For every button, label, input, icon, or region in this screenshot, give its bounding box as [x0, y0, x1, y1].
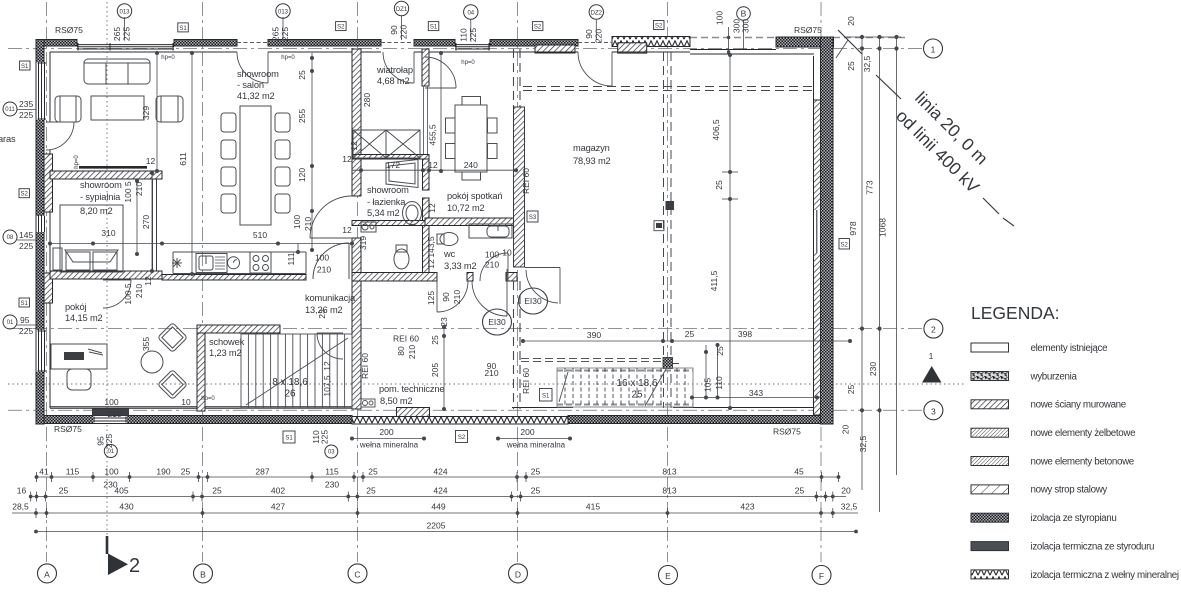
door arc salon/komunikacja [313, 243, 349, 279]
kitchen star symbol [172, 258, 182, 268]
kitchen counter [173, 251, 306, 253]
svg-text:115: 115 [325, 467, 339, 477]
svg-text:329: 329 [141, 106, 151, 120]
svg-text:25: 25 [531, 467, 541, 477]
svg-text:pom. techniczne: pom. techniczne [379, 384, 444, 394]
svg-text:12: 12 [349, 141, 359, 151]
svg-text:013: 013 [119, 10, 130, 16]
svg-text:319: 319 [358, 236, 368, 250]
svg-text:S2: S2 [841, 242, 849, 248]
meeting table spotkan [455, 105, 487, 172]
legend swatch wyburzenia [971, 372, 1009, 381]
svg-text:210: 210 [107, 409, 121, 419]
legend swatch nowe elementy betonowe [971, 457, 1009, 466]
svg-text:90: 90 [389, 25, 399, 35]
svg-text:26: 26 [284, 389, 296, 400]
door arc magazyn top DZ2 [578, 52, 612, 86]
svg-text:41,32 m2: 41,32 m2 [237, 91, 275, 101]
svg-text:100 5: 100 5 [123, 181, 133, 203]
svg-text:S1: S1 [21, 64, 29, 70]
window marker 013 b [276, 4, 290, 18]
svg-text:4,68 m2: 4,68 m2 [377, 76, 410, 86]
right dim rotated texts [841, 16, 888, 452]
svg-text:25: 25 [685, 329, 695, 339]
svg-text:izolacja termiczna z wełny min: izolacja termiczna z wełny mineralnej [1031, 570, 1179, 581]
svg-text:04: 04 [467, 11, 474, 17]
interior wall stair left [197, 333, 205, 411]
wall D dashed double [514, 49, 521, 409]
svg-text:S1: S1 [179, 26, 187, 32]
legend swatch nowe elementy zelbetowe [971, 428, 1009, 437]
svg-text:235: 235 [19, 99, 33, 109]
kitchen stove [250, 252, 271, 273]
svg-text:105: 105 [703, 378, 713, 392]
svg-text:wc: wc [443, 249, 456, 259]
wall D hatched segment [514, 107, 525, 267]
dining chairs left [221, 113, 236, 132]
svg-text:41: 41 [39, 467, 49, 477]
svg-text:S2: S2 [458, 435, 466, 441]
svg-text:C: C [354, 569, 360, 579]
svg-text:300: 300 [741, 19, 751, 33]
svg-text:16: 16 [17, 486, 27, 496]
svg-text:111: 111 [286, 252, 296, 265]
axis circle 2 [924, 319, 943, 338]
shower tray lazienka [386, 160, 418, 188]
svg-text:230: 230 [868, 362, 878, 376]
dim line pom tech 25/205 [443, 327, 445, 409]
door arc H3 left [437, 281, 468, 312]
sypialnia right thin wall [153, 179, 157, 271]
beam line over sypialnia [79, 166, 147, 169]
right dim column lines [836, 35, 901, 512]
svg-text:240: 240 [464, 160, 478, 170]
svg-text:813: 813 [662, 486, 676, 496]
grid axis F vertical [820, 2, 822, 562]
svg-text:magazyn: magazyn [573, 143, 610, 153]
sink spotkan [469, 224, 512, 238]
svg-text:12: 12 [143, 276, 153, 286]
svg-text:20: 20 [841, 425, 851, 435]
window marker 04 [464, 5, 478, 19]
svg-text:showroom: showroom [367, 185, 409, 195]
svg-text:12: 12 [342, 225, 352, 235]
svg-text:EI30: EI30 [488, 317, 506, 327]
svg-text:143,5: 143,5 [426, 236, 436, 258]
top wall existing segment lines [690, 49, 776, 51]
svg-text:8 x 18,6: 8 x 18,6 [272, 377, 308, 388]
interior wall lazienka right V3 [423, 158, 430, 190]
stairs 2 magazyn [557, 368, 693, 407]
svg-text:310: 310 [101, 228, 115, 238]
top door gap dashed lintels [237, 42, 612, 44]
svg-text:12: 12 [322, 361, 332, 371]
svg-text:270: 270 [141, 215, 151, 229]
interior wall spotkan bottom H2 [352, 221, 429, 226]
S boxes left [19, 61, 30, 307]
svg-text:230: 230 [325, 480, 339, 490]
svg-text:32,5: 32,5 [862, 55, 872, 72]
svg-text:S3: S3 [529, 215, 537, 221]
svg-text:220: 220 [594, 29, 604, 43]
axis bubble D [509, 564, 528, 583]
svg-text:1,23 m2: 1,23 m2 [209, 348, 242, 358]
dim line magazyn 406,5/25/411,5 vertical [729, 55, 731, 408]
svg-text:hp=0: hp=0 [161, 55, 175, 61]
interior wall sypialnia top [50, 171, 162, 179]
left marker 011 [3, 102, 17, 116]
grid axis C vertical [357, 2, 359, 562]
svg-text:nowe elementy betonowe: nowe elementy betonowe [1031, 456, 1135, 467]
grid axis E vertical [667, 2, 669, 562]
svg-text:25: 25 [212, 486, 222, 496]
door arc H3 right [472, 281, 507, 316]
svg-text:265: 265 [112, 27, 122, 41]
axis marker B top [737, 7, 751, 21]
svg-text:813: 813 [662, 467, 676, 477]
EI30 oval 1 [483, 288, 548, 335]
svg-text:25: 25 [795, 486, 805, 496]
diamond armchair 2 [158, 370, 188, 400]
section marker 1 triangle [922, 366, 942, 383]
svg-text:423: 423 [740, 502, 754, 512]
door arc EI30 magazyn [525, 267, 560, 269]
door arc salon top [46, 52, 612, 359]
left wall checker [36, 40, 44, 425]
svg-text:20: 20 [846, 16, 856, 26]
left wall pilaster hatch [44, 154, 53, 212]
interior wall schowek top [197, 325, 280, 333]
svg-text:1068: 1068 [878, 218, 888, 237]
svg-text:S1: S1 [21, 301, 29, 307]
svg-text:200: 200 [379, 427, 393, 437]
svg-text:25: 25 [846, 385, 856, 395]
svg-text:25: 25 [715, 346, 725, 356]
grid axis D vertical [517, 2, 519, 562]
S boxes top [178, 21, 664, 32]
axis bubble A [38, 564, 57, 583]
svg-text:424: 424 [433, 467, 447, 477]
legend swatch izolacja termiczna ze styroduru [971, 542, 1009, 551]
top wall welna segment [612, 37, 690, 47]
svg-text:12: 12 [427, 203, 437, 213]
svg-text:12: 12 [342, 154, 352, 164]
svg-text:424: 424 [433, 486, 447, 496]
interior dim lines [48, 51, 851, 440]
svg-text:280: 280 [362, 93, 372, 107]
coffee table [91, 96, 144, 120]
svg-text:100 5: 100 5 [123, 283, 133, 305]
svg-text:265: 265 [271, 27, 281, 41]
svg-text:205: 205 [430, 363, 440, 377]
svg-text:100: 100 [715, 11, 725, 25]
S boxes bottom and magazyn [283, 211, 850, 443]
svg-text:220: 220 [399, 25, 409, 39]
axis bubble C [348, 564, 367, 583]
svg-text:78,93 m2: 78,93 m2 [573, 156, 611, 166]
svg-text:F: F [819, 571, 824, 581]
dashed mezzanine edge magazyn [521, 358, 663, 360]
svg-text:355: 355 [141, 337, 151, 351]
top window 2 [455, 43, 490, 51]
svg-text:REI 60: REI 60 [521, 368, 531, 394]
svg-text:B: B [741, 9, 747, 19]
dim line 611 [191, 53, 193, 274]
svg-text:- łazienka: - łazienka [367, 197, 406, 207]
svg-text:406,5: 406,5 [711, 119, 721, 141]
kitchen vent [215, 257, 225, 269]
bottom window pokoj [93, 416, 127, 423]
svg-text:RSØ75: RSØ75 [55, 25, 83, 35]
svg-text:390: 390 [587, 330, 601, 340]
svg-text:430: 430 [119, 502, 133, 512]
small wall marker magazyn [654, 221, 664, 231]
svg-text:80: 80 [396, 346, 406, 356]
svg-text:978: 978 [848, 221, 858, 235]
svg-text:hp=0: hp=0 [74, 155, 80, 169]
svg-text:225: 225 [122, 27, 132, 41]
dim line magazyn 390/25/398 [523, 340, 850, 342]
door arc wiatrolap top DZ1 [383, 52, 414, 83]
svg-text:20: 20 [841, 486, 851, 496]
svg-text:411,5: 411,5 [709, 270, 719, 291]
axis bubble F [812, 566, 831, 585]
armchair left [55, 96, 81, 122]
svg-text:210: 210 [484, 368, 498, 378]
svg-text:013: 013 [278, 10, 289, 16]
window marker 013 a [117, 4, 131, 18]
grid axis 1 horizontal [8, 48, 923, 50]
top wall lintel hatch [618, 43, 647, 53]
svg-text:25: 25 [846, 61, 856, 71]
legend swatch nowe sciany murowane [971, 400, 1009, 409]
dim line 455,5 [440, 53, 442, 171]
lintel over pokoj window [92, 409, 129, 416]
bottom wall welna band [352, 417, 568, 425]
dim line sofa 329 [156, 53, 158, 171]
axis circle 1 [924, 39, 943, 58]
svg-text:wyburzenia: wyburzenia [1030, 371, 1078, 382]
svg-text:210: 210 [134, 182, 144, 196]
dim line welna 2 [498, 438, 570, 440]
svg-text:hp=0: hp=0 [281, 55, 295, 61]
interior wall sypialnia bottom [50, 271, 162, 279]
svg-text:107,5: 107,5 [322, 375, 332, 397]
svg-text:elementy istniejące: elementy istniejące [1031, 343, 1109, 354]
svg-text:14,15 m2: 14,15 m2 [65, 313, 103, 323]
left marker 08 [3, 230, 17, 244]
svg-text:DZ2: DZ2 [591, 11, 603, 17]
dim line magazyn 105/110 [705, 345, 707, 398]
beam over magazyn horizontal dashed [523, 87, 813, 91]
svg-text:225: 225 [468, 28, 478, 42]
WALLS [36, 37, 834, 425]
interior wall wiatrolap right V2 [422, 49, 429, 86]
svg-text:225: 225 [280, 27, 290, 41]
svg-text:12: 12 [426, 259, 436, 269]
top wall inner edge line [50, 51, 237, 53]
svg-text:REI 60: REI 60 [360, 353, 370, 379]
section line 1-1 horizontal dotted [8, 383, 964, 385]
roof overhang dashed top right [690, 37, 905, 39]
svg-text:110: 110 [714, 376, 724, 390]
door arc taras left [46, 122, 74, 150]
svg-text:28,5: 28,5 [12, 502, 29, 512]
svg-text:nowe ściany murowane: nowe ściany murowane [1031, 400, 1127, 411]
tiny hp labels [74, 55, 475, 402]
svg-text:455,5: 455,5 [428, 124, 438, 146]
svg-text:427: 427 [271, 502, 285, 512]
svg-text:showroom: showroom [237, 69, 279, 79]
grid axis 2 horizontal [8, 328, 923, 330]
svg-text:pokój spotkań: pokój spotkań [447, 191, 502, 201]
svg-text:100: 100 [104, 397, 118, 407]
sofa salon [84, 59, 150, 84]
svg-text:izolacja termiczna ze styrodur: izolacja termiczna ze styroduru [1031, 541, 1155, 552]
svg-text:01: 01 [107, 449, 114, 455]
svg-text:100: 100 [315, 253, 329, 263]
svg-text:3: 3 [931, 406, 936, 416]
svg-text:011: 011 [5, 107, 15, 113]
grid axis A vertical [46, 2, 48, 562]
legend labels [1030, 343, 1179, 581]
section line 2-2 vertical dotted [106, 2, 108, 536]
bottom dim chain row 2 [29, 492, 846, 502]
dim line salon right vertical [311, 53, 313, 250]
svg-text:showroom: showroom [80, 180, 122, 190]
stairs 1 schowek [241, 334, 352, 408]
svg-text:45: 45 [794, 467, 804, 477]
svg-text:611: 611 [178, 152, 188, 166]
top marker leader lines [125, 16, 744, 52]
svg-text:DZ1: DZ1 [396, 7, 408, 13]
svg-text:32,5: 32,5 [841, 502, 858, 512]
svg-text:120: 120 [297, 168, 307, 182]
door arc pokoj [103, 280, 131, 308]
svg-text:REI 60: REI 60 [521, 168, 531, 194]
pom techniczne symbol [361, 399, 375, 407]
svg-text:10: 10 [181, 397, 191, 407]
svg-text:25: 25 [531, 486, 541, 496]
door marker DZ2 [589, 5, 603, 19]
bottom dim chain row 4 [35, 530, 858, 533]
bottom dim chain row 3 [12, 508, 858, 518]
svg-text:210: 210 [303, 217, 313, 231]
svg-text:RSØ75: RSØ75 [773, 427, 801, 437]
svg-text:03: 03 [328, 450, 335, 456]
interior wall salon/komunikacja [162, 275, 306, 281]
svg-text:izolacja ze styropianu: izolacja ze styropianu [1031, 513, 1117, 524]
svg-text:wiatrołap: wiatrołap [376, 65, 413, 75]
svg-text:145: 145 [19, 230, 33, 240]
svg-text:aras: aras [0, 134, 16, 144]
svg-text:210: 210 [485, 260, 499, 270]
svg-text:10: 10 [502, 248, 512, 258]
legend swatch nowy strop stalowy [971, 485, 1009, 494]
interior wall lazienka top H1 [352, 155, 429, 160]
svg-text:190: 190 [156, 467, 170, 477]
bottom wall inner floor lines [50, 406, 352, 408]
svg-text:110: 110 [459, 28, 469, 42]
sink lazienka [403, 202, 422, 225]
svg-text:773: 773 [865, 180, 875, 194]
door arc stair hall [317, 333, 343, 359]
svg-text:2: 2 [129, 555, 140, 577]
right wall inner hatch [814, 100, 821, 415]
svg-text:RSØ75: RSØ75 [54, 424, 82, 434]
bottom dim chain row 1 [35, 472, 840, 482]
horizontal dim texts [101, 154, 763, 450]
svg-text:8,20 m2: 8,20 m2 [80, 206, 113, 216]
chair pokoj [67, 369, 91, 390]
toilet wc2 [396, 245, 407, 252]
right wall window strip [814, 210, 820, 253]
dining chairs right [275, 113, 290, 132]
dim line sypialnia 210 [136, 181, 138, 254]
svg-text:- sypialnia: - sypialnia [80, 192, 121, 202]
svg-text:100: 100 [485, 250, 499, 260]
legend swatch izolacja termiczna z welny mineralnej [971, 570, 1009, 579]
svg-text:REI 60: REI 60 [393, 334, 419, 344]
rotated dim texts [123, 70, 725, 397]
dim line 111 kitchen [297, 244, 299, 253]
svg-text:hp=0: hp=0 [201, 396, 215, 402]
svg-text:200: 200 [520, 427, 534, 437]
svg-text:hp=0: hp=0 [461, 60, 475, 66]
dim line welna 1 [352, 438, 424, 440]
round table komunikacja [141, 351, 163, 373]
washer lazienka [361, 222, 376, 232]
interior wall middle bottom H3 [352, 273, 437, 282]
beam E dashed double [664, 52, 672, 408]
svg-text:449: 449 [431, 502, 445, 512]
svg-text:225: 225 [320, 430, 330, 444]
left marker 01 [3, 315, 17, 329]
axis bubble B [194, 564, 213, 583]
grid axis 3 horizontal [8, 409, 923, 411]
axis bubble E [659, 566, 678, 585]
svg-text:398: 398 [738, 329, 752, 339]
svg-text:210: 210 [452, 290, 462, 304]
axis circle 3 [924, 401, 943, 420]
svg-text:1: 1 [929, 351, 934, 361]
armchair right [156, 96, 183, 122]
dim line 510/310 [50, 243, 352, 245]
toilet wc [437, 234, 444, 244]
svg-text:25: 25 [59, 486, 69, 496]
svg-text:- salon: - salon [237, 80, 264, 90]
legend swatch izolacja ze styropianu [971, 513, 1009, 522]
svg-text:225: 225 [19, 241, 33, 251]
svg-text:S1: S1 [430, 25, 438, 31]
svg-text:90: 90 [441, 292, 451, 302]
svg-text:nowy strop stalowy: nowy strop stalowy [1031, 485, 1108, 496]
bottom wall repaired diagonal patch [397, 408, 430, 417]
svg-text:RSØ75: RSØ75 [794, 25, 822, 35]
section marker 2 triangle [108, 554, 128, 576]
top window 1 [77, 43, 174, 51]
dining table salon [240, 106, 271, 225]
svg-text:25: 25 [368, 467, 378, 477]
svg-text:255: 255 [297, 109, 307, 123]
FURNITURE [51, 59, 693, 408]
svg-text:343: 343 [749, 388, 763, 398]
svg-text:210: 210 [407, 345, 417, 359]
svg-text:25: 25 [181, 467, 191, 477]
svg-text:08: 08 [7, 235, 14, 241]
svg-text:25: 25 [297, 70, 307, 80]
svg-text:S2: S2 [21, 192, 29, 198]
